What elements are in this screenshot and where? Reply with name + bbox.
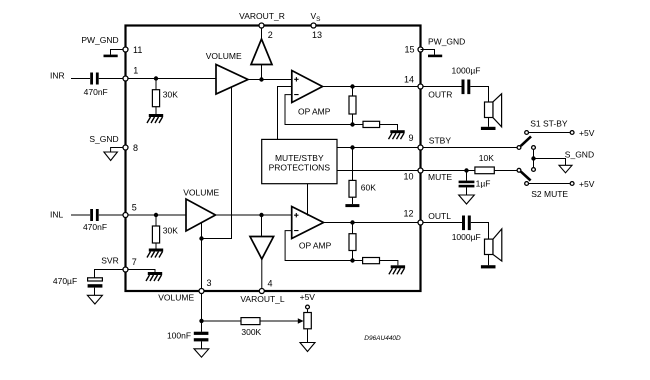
- ground hatched (op L): [389, 265, 405, 274]
- resistor feedback vertical (left): [349, 223, 356, 261]
- svg-text:2: 2: [268, 30, 273, 40]
- switch S2 label: [531, 189, 568, 199]
- switch S1 blade: [521, 136, 531, 146]
- svg-text:30K: 30K: [163, 226, 178, 236]
- node OUTR label: [428, 90, 452, 100]
- node junction (op R out): [350, 84, 354, 88]
- switch S2 pole: [517, 168, 521, 172]
- node Vs label: [311, 11, 322, 23]
- node junction (volume net): [199, 236, 203, 240]
- svg-text:INL: INL: [50, 210, 64, 220]
- svg-text:VAROUT_R: VAROUT_R: [239, 11, 285, 21]
- svg-text:OP AMP: OP AMP: [299, 241, 332, 251]
- svg-text:+5V: +5V: [579, 179, 595, 189]
- ground hatched at pin 7: [129, 270, 163, 282]
- wire S2 to +5V: [529, 183, 570, 185]
- svg-text:1000µF: 1000µF: [452, 66, 481, 76]
- svg-text:13: 13: [312, 30, 322, 40]
- wire pin 7 to 470uF: [95, 270, 126, 278]
- svg-text:30K: 30K: [163, 89, 178, 99]
- ground S_GND at pin 8: [89, 134, 125, 160]
- svg-text:MUTE: MUTE: [428, 172, 452, 182]
- wire S1 to +5V: [529, 132, 570, 134]
- wire junction to 300K: [202, 320, 242, 322]
- node junction (fb R): [350, 122, 354, 126]
- wire pin 14 to cap: [424, 86, 462, 88]
- wire volume R output: [248, 79, 292, 81]
- doc number D96AU440D: [364, 335, 401, 342]
- node OUTL label: [428, 211, 451, 221]
- node junction (1uF): [464, 168, 468, 172]
- node junction (30K R): [154, 76, 158, 80]
- wire pin 5 to volume L: [129, 214, 187, 216]
- svg-text:470µF: 470µF: [53, 276, 77, 286]
- svg-text:OUTL: OUTL: [428, 211, 451, 221]
- resistor to ground horizontal (right): [353, 121, 398, 130]
- node VAROUT_L label: [240, 294, 285, 304]
- node junction (S_GND): [531, 156, 535, 160]
- svg-text:PW_GND: PW_GND: [428, 37, 465, 47]
- svg-text:470nF: 470nF: [84, 87, 108, 97]
- terminal +5V (S1): [570, 128, 594, 138]
- wire feedback (right): [285, 95, 353, 125]
- pin 3: [199, 278, 212, 294]
- svg-text:10K: 10K: [479, 153, 494, 163]
- switch common contacts to S_GND: [532, 146, 536, 172]
- svg-text:D96AU440D: D96AU440D: [364, 335, 401, 342]
- ground bar (60K): [345, 204, 359, 207]
- wire mute ctrl to op-amp L: [307, 184, 309, 216]
- svg-text:INR: INR: [50, 71, 65, 81]
- svg-text:+5V: +5V: [579, 128, 595, 138]
- node STBY label: [429, 135, 452, 145]
- amplifier VOLUME (left ch): [183, 188, 219, 232]
- wire 300K to pot wiper: [260, 318, 304, 323]
- wire op-amp R output to pin 14: [323, 86, 421, 88]
- svg-text:9: 9: [409, 133, 414, 143]
- ground hatched (30K right): [147, 114, 163, 123]
- svg-text:OUTR: OUTR: [428, 90, 452, 100]
- amplifier VOLUME (right ch): [206, 51, 248, 94]
- wire volume L output: [216, 214, 292, 216]
- svg-text:VAROUT_L: VAROUT_L: [240, 294, 285, 304]
- wire block to pin 9 STBY: [337, 147, 421, 149]
- svg-text:4: 4: [268, 279, 273, 289]
- op-amp U1A (right ch): [292, 71, 331, 117]
- switch S1 pole: [517, 146, 521, 150]
- node INR label: [50, 71, 65, 81]
- node MUTE label: [428, 172, 452, 182]
- wire pin 10 to 10K: [424, 170, 475, 172]
- svg-text:STBY: STBY: [429, 135, 452, 145]
- pin 5: [123, 203, 137, 218]
- wire pin 12 to cap: [424, 222, 463, 224]
- capacitor 1000uF (OUTL): [452, 216, 481, 243]
- svg-text:PROTECTIONS: PROTECTIONS: [269, 163, 331, 173]
- wire pin 3 down: [201, 294, 203, 321]
- op-amp U1B (left ch): [292, 207, 332, 251]
- wire to S_GND: [534, 159, 566, 166]
- ground hatched (30K left): [147, 249, 163, 258]
- block MUTE/STBY PROTECTIONS: [262, 139, 337, 183]
- buffer VAROUT_R: [251, 26, 272, 80]
- ground (pot): [300, 329, 315, 352]
- terminal +5V (pot): [300, 292, 316, 313]
- resistor 10K: [475, 153, 517, 174]
- node junction (30K L): [154, 213, 158, 217]
- potentiometer body: [304, 313, 312, 329]
- svg-text:14: 14: [404, 75, 414, 85]
- svg-text:1µF: 1µF: [476, 179, 491, 189]
- pin 9: [409, 133, 424, 150]
- terminal +5V (S2): [570, 179, 594, 189]
- pin 10: [404, 168, 424, 182]
- pin 12: [404, 209, 424, 226]
- node VOLUME pin 3 label: [158, 292, 194, 302]
- speaker (right ch): [485, 94, 502, 127]
- wire op-amp L output to pin 12: [324, 222, 421, 224]
- wire cap to speaker L: [471, 223, 489, 240]
- ground bar (speaker R): [481, 118, 496, 131]
- pin 15: [405, 45, 424, 55]
- svg-text:100nF: 100nF: [167, 331, 191, 341]
- pin 14: [404, 75, 423, 90]
- node junction (60K): [350, 145, 354, 149]
- svg-text:PW_GND: PW_GND: [81, 35, 118, 45]
- svg-text:5: 5: [132, 203, 137, 213]
- wire feedback (left): [285, 231, 352, 261]
- svg-text:60K: 60K: [361, 182, 376, 192]
- pin 8: [123, 143, 138, 153]
- svg-text:MUTE/STBY: MUTE/STBY: [275, 153, 324, 163]
- svg-text:15: 15: [405, 45, 415, 55]
- switch S1 label: [530, 119, 568, 129]
- switch S2 contact: [525, 182, 529, 186]
- capacitor 470uF (SVR): [53, 276, 103, 287]
- svg-text:12: 12: [404, 209, 414, 219]
- node junction (fb L): [350, 258, 354, 262]
- svg-text:VOLUME: VOLUME: [206, 51, 242, 61]
- ground (1uF): [459, 187, 475, 204]
- wire pin 9 to switch S1: [424, 147, 518, 149]
- node junction (op L out): [350, 220, 354, 224]
- ground S_GND (switches): [559, 150, 594, 173]
- ground (470uF): [87, 288, 102, 304]
- svg-text:VOLUME: VOLUME: [183, 188, 219, 198]
- wire INL input to pin 5: [71, 214, 126, 216]
- resistor to ground horizontal (left): [353, 258, 398, 266]
- wire block to pin 10 MUTE: [337, 170, 421, 172]
- switch S1 contact: [525, 131, 529, 135]
- node junction (varout R): [259, 77, 263, 81]
- svg-text:VOLUME: VOLUME: [158, 292, 194, 302]
- node INL label: [50, 210, 64, 220]
- node VAROUT_R label: [239, 11, 285, 21]
- speaker (left ch): [485, 229, 502, 261]
- svg-text:8: 8: [133, 143, 138, 153]
- node junction (volume ext): [199, 319, 203, 323]
- buffer VAROUT_L: [250, 215, 274, 291]
- svg-text:1000µF: 1000µF: [452, 232, 481, 242]
- svg-text:300K: 300K: [241, 327, 261, 337]
- svg-text:S_GND: S_GND: [89, 134, 118, 144]
- svg-text:S1 ST-BY: S1 ST-BY: [530, 119, 568, 129]
- pin 2: [259, 23, 273, 40]
- svg-text:11: 11: [133, 45, 142, 55]
- svg-text:SVR: SVR: [101, 256, 118, 266]
- ground PW_GND at pin 11: [81, 35, 125, 57]
- wire volume R tap to pin 3 net: [202, 87, 232, 291]
- svg-text:S_GND: S_GND: [565, 150, 594, 160]
- svg-text:S2 MUTE: S2 MUTE: [531, 189, 568, 199]
- svg-text:OP AMP: OP AMP: [298, 107, 331, 117]
- svg-text:3: 3: [207, 278, 212, 288]
- ground (100nF): [194, 341, 209, 357]
- resistor 30K (left ch): [152, 215, 178, 249]
- capacitor 100nF: [167, 321, 208, 341]
- IC box U1: [126, 26, 421, 292]
- pin 11: [123, 45, 142, 55]
- capacitor 470nF (INR): [84, 73, 108, 98]
- wire mute ctrl to op-amp R: [278, 87, 292, 140]
- svg-text:470nF: 470nF: [83, 222, 107, 232]
- pin 1: [123, 66, 138, 81]
- capacitor 1000uF (OUTR): [452, 66, 481, 95]
- resistor feedback vertical (right): [349, 87, 356, 125]
- ground hatched (op R): [389, 130, 405, 139]
- resistor 60K: [349, 148, 376, 205]
- svg-text:10: 10: [404, 172, 414, 182]
- resistor 300K: [241, 318, 262, 337]
- svg-text:+5V: +5V: [300, 292, 316, 302]
- ground bar (speaker L): [481, 255, 496, 269]
- node junction (varout L): [259, 213, 263, 217]
- pin 7: [123, 257, 137, 272]
- svg-text:1: 1: [133, 66, 138, 76]
- svg-text:7: 7: [132, 257, 137, 267]
- switch S2 blade: [521, 172, 531, 181]
- capacitor 1uF: [459, 171, 491, 189]
- capacitor 470nF (INL): [83, 209, 107, 232]
- pin 13: [311, 23, 322, 40]
- node SVR label: [101, 256, 118, 266]
- wire pin 1 to volume R: [129, 78, 217, 80]
- wire INR input to pin 1: [71, 78, 126, 80]
- ground PW_GND at pin 15: [421, 37, 466, 58]
- wire cap to speaker R: [470, 87, 488, 103]
- resistor 30K (right ch): [152, 79, 178, 115]
- pin 4: [259, 279, 272, 294]
